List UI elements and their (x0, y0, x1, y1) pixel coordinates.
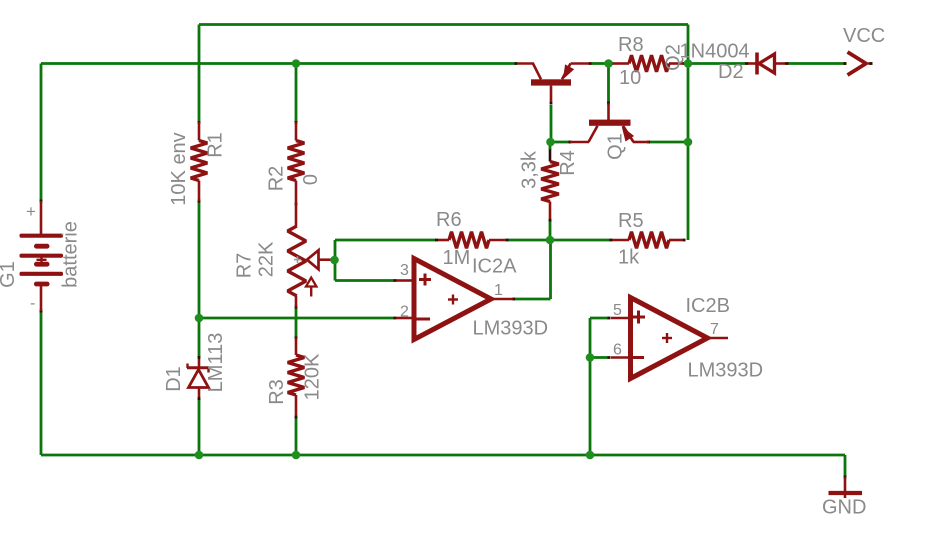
op-amp IC2A pin 3 stub (396, 279, 412, 282)
op-amp IC2A minus marker (417, 318, 431, 321)
pin tick R5 left (610, 239, 613, 242)
trimmer R7 wiper arrow (307, 250, 319, 269)
wire to IC2B pin 6 (590, 356, 608, 359)
resistor R6 zigzag (449, 232, 489, 249)
svg-text:batterie: batterie (59, 221, 81, 288)
svg-text:1k: 1k (618, 247, 640, 269)
pin tick Q2 base (550, 102, 553, 105)
wire IC2B pin5 left vertical (589, 318, 592, 455)
wire to IC2A pin 3 (335, 279, 394, 282)
node Q1 emitter / right vertical (684, 138, 693, 147)
zener D1 cathode bar (187, 366, 209, 369)
node R4 / R6 / R5 / IC2A out (546, 236, 555, 245)
wire wiper node to R6 left (335, 239, 436, 242)
wire R1 top (198, 25, 201, 123)
battery G1 plate 5 long (20, 272, 64, 276)
diode D2 cathode bar (755, 53, 759, 75)
transistor Q2 emitter lead (562, 64, 571, 80)
ground symbol (844, 477, 847, 498)
pin tick GND (844, 476, 847, 479)
battery G1 lead bottom (40, 286, 43, 311)
pin tick IC2B pin6 (608, 356, 611, 359)
pin tick Q2 emitter (589, 62, 592, 65)
wire node 240 to R5 left (550, 239, 610, 242)
svg-text:D1: D1 (163, 366, 185, 392)
diode D2 cathode pin (775, 62, 786, 65)
node IC2B pin6 (586, 353, 595, 362)
svg-text:VCC: VCC (843, 25, 885, 47)
pin tick Q2 collector (515, 62, 518, 65)
wire wiper node down (334, 260, 337, 281)
op-amp IC2A pin 2 stub (396, 317, 412, 320)
transistor Q2 emitter arrow (564, 65, 574, 78)
svg-text:R6: R6 (436, 209, 462, 231)
svg-text:1M: 1M (443, 247, 471, 269)
svg-text:1N4004: 1N4004 (680, 41, 750, 63)
wire R3 bottom to ground rail (295, 417, 298, 455)
op-amp IC2B plus marker (632, 316, 645, 319)
resistor R3 pin top (295, 338, 298, 355)
pin tick R3 top (295, 337, 298, 340)
node D1 ground (195, 451, 204, 460)
pin tick IC2A pin2 (394, 317, 397, 320)
op-amp IC2A center plus (448, 298, 458, 300)
battery G1 plus mark (37, 259, 47, 261)
wire Q1 collector to node (550, 141, 570, 144)
op-amp IC2A triangle (414, 259, 491, 340)
svg-text:120K: 120K (301, 353, 323, 400)
pin tick R6 right (506, 239, 509, 242)
pin tick Q1 base (607, 102, 610, 105)
svg-text:1: 1 (494, 282, 503, 299)
svg-text:-: - (30, 295, 35, 312)
node R1 / D1 / IC2A pin2 (195, 314, 204, 323)
resistor R5 zigzag (629, 232, 669, 249)
svg-text:10K env: 10K env (168, 132, 190, 205)
resistor R2 zigzag (288, 141, 305, 181)
svg-text:R2: R2 (265, 166, 287, 192)
node R8 / D2 / right vertical (684, 59, 693, 68)
wire Q1 emitter to right vertical (649, 141, 688, 144)
resistor R6 pin left (438, 239, 449, 242)
diode D2 triangle (759, 54, 775, 73)
pin tick D2 anode (745, 62, 749, 65)
op-amp IC2A output stub (491, 298, 513, 301)
resistor R1 pin top (198, 122, 201, 141)
zener D1 leads (198, 359, 201, 367)
wire right vertical x=688 (687, 25, 690, 241)
resistor R1 zigzag (191, 141, 208, 181)
resistor R5 pin left (612, 239, 629, 242)
svg-text:6: 6 (613, 342, 622, 359)
op-amp IC2B center plus (662, 337, 672, 339)
trimmer R7 wiper plus mark (294, 259, 301, 261)
svg-text:2: 2 (400, 304, 409, 321)
wire R1 bottom to node (198, 201, 201, 318)
pin tick VCC (844, 62, 847, 65)
trimmer R7 pin bottom (295, 296, 298, 307)
wire VBAT rail y=63.5 from battery to Q2 collector (41, 62, 516, 65)
resistor R4 pin bottom (549, 202, 552, 220)
wire Q2 emitter to node (591, 62, 608, 65)
svg-text:LM113: LM113 (205, 333, 227, 393)
svg-text:3: 3 (400, 262, 409, 279)
svg-text:GND: GND (822, 497, 866, 519)
zener D1 triangle (189, 370, 209, 388)
pin tick R3 bottom (295, 416, 298, 419)
pin tick R4 bottom (549, 219, 552, 222)
svg-text:Q1: Q1 (604, 133, 626, 160)
svg-text:10: 10 (619, 67, 641, 89)
wire left vertical battery bottom (40, 311, 43, 455)
pin tick R1 bottom (198, 200, 201, 203)
svg-text:R5: R5 (618, 210, 644, 232)
wire D2 cathode to VCC (788, 62, 846, 65)
svg-text:R1: R1 (204, 132, 226, 158)
svg-text:R8: R8 (618, 34, 644, 56)
transistor Q1 base bar (589, 120, 631, 126)
svg-text:22K: 22K (255, 241, 277, 277)
pin tick D2 cathode (785, 62, 789, 65)
op-amp IC2B triangle (631, 298, 708, 379)
op-amp IC2A plus marker (419, 278, 431, 281)
battery G1 plate 2 short (34, 244, 50, 249)
wire wiper node up (334, 240, 337, 260)
pin tick battery minus (40, 310, 43, 313)
resistor R4 pin top dark (549, 142, 552, 150)
wire R4 bottom to node 240 (549, 220, 552, 240)
resistor R8 pin left (613, 62, 629, 65)
resistor R3 zigzag (288, 355, 305, 395)
pin tick R5 right (683, 239, 686, 242)
resistor R2 pin top (295, 122, 298, 141)
transistor Q1 base lead (607, 103, 610, 120)
node R7 wiper (330, 256, 339, 265)
pin tick R2 top (295, 121, 298, 124)
wire Q1 base drop (607, 64, 610, 104)
wire bottom ground rail (41, 454, 845, 457)
pin tick Q1 collector (569, 141, 572, 144)
wire R2 top (295, 64, 298, 123)
pin tick battery plus (40, 200, 43, 203)
node Q2 base / Q1 collector / R4 (546, 138, 555, 147)
pin tick R7 bottom (295, 306, 298, 309)
transistor Q1 collector lead (589, 126, 598, 142)
pin tick R2/R7 junction (295, 203, 298, 206)
pin tick R1 top (198, 121, 201, 124)
wire D1 top (198, 318, 201, 357)
battery G1 plate 1 long (20, 234, 64, 238)
pin tick R8 left (610, 62, 614, 65)
diode D2 anode pin (748, 62, 756, 65)
node R3 ground (292, 451, 301, 460)
pin tick Q1 emitter (647, 141, 650, 144)
wire R7 bottom to R3 top (295, 307, 298, 338)
battery G1 lead top (40, 201, 43, 234)
node Q2 emitter / R8 / Q1 base (604, 59, 613, 68)
svg-text:R4: R4 (557, 150, 579, 176)
svg-text:G1: G1 (0, 261, 19, 288)
resistor R5 pin right (669, 239, 683, 242)
resistor R3 pin bottom (295, 395, 298, 416)
pin tick IC2A pin3 (394, 279, 397, 282)
svg-text:R3: R3 (266, 379, 288, 405)
wire R6 right to node 240 (507, 239, 550, 242)
wire left vertical battery top (40, 64, 43, 202)
svg-text:7: 7 (710, 321, 719, 338)
svg-text:R7: R7 (233, 253, 255, 279)
pin tick R6 left (435, 239, 438, 242)
wire to IC2B pin 5 (590, 317, 608, 320)
wire IC2A output up to node 240 (549, 240, 552, 299)
wire IC2A output right (514, 298, 551, 301)
pin tick IC2B pin5 (608, 317, 611, 320)
svg-text:+: + (26, 202, 36, 221)
pin tick R8 right (683, 62, 686, 65)
op-amp IC2B output stub (708, 337, 729, 340)
transistor Q1 emitter lead (623, 126, 634, 142)
wire top rail from R1 top to right vertical (199, 23, 688, 26)
wire GND stub down (844, 455, 847, 477)
pin tick D1 cathode (198, 356, 201, 359)
op-amp IC2B minus marker (631, 356, 644, 359)
resistor R6 pin right (489, 239, 506, 242)
wire D1 bottom to ground rail (198, 399, 201, 455)
transistor Q2 base lead (550, 86, 553, 102)
wire node to D2 anode side (688, 62, 745, 65)
svg-text:IC2B: IC2B (686, 295, 730, 317)
transistor Q2 base bar (531, 79, 571, 85)
resistor R1 pin bottom (198, 181, 201, 202)
wire Q2 base to node 142 (550, 105, 553, 142)
transistor Q2 collector lead (517, 62, 534, 65)
svg-text:IC2A: IC2A (472, 256, 517, 278)
trimmer R7 adjust arrow (306, 278, 316, 287)
trimmer R7 zigzag (288, 226, 306, 296)
wire node to IC2A pin 2 (199, 317, 394, 320)
battery G1 plate 4 short (34, 262, 50, 267)
op-amp IC2B pin 6 stub (611, 356, 628, 359)
resistor R8 zigzag (629, 55, 669, 72)
resistor R8 pin right (669, 62, 683, 65)
svg-text:0: 0 (300, 174, 322, 185)
VCC arrow (848, 52, 867, 75)
transistor Q1 emitter arrow (623, 128, 634, 141)
svg-text:3,3k: 3,3k (518, 150, 540, 189)
node R2 top (292, 59, 301, 68)
svg-text:D2: D2 (718, 61, 744, 83)
battery G1 plate 6 short (34, 282, 50, 287)
svg-text:LM393D: LM393D (473, 318, 549, 340)
pin tick IC2A out (512, 298, 515, 301)
pin tick D1 anode (198, 397, 201, 400)
resistor R2 pin bottom (295, 181, 298, 227)
node IC2B ground (586, 451, 595, 460)
svg-text:LM393D: LM393D (688, 360, 764, 382)
op-amp IC2B pin 5 stub (611, 317, 628, 320)
resistor R4 zigzag (541, 162, 559, 202)
svg-text:5: 5 (613, 302, 622, 319)
battery G1 plate 3 long (20, 254, 64, 258)
